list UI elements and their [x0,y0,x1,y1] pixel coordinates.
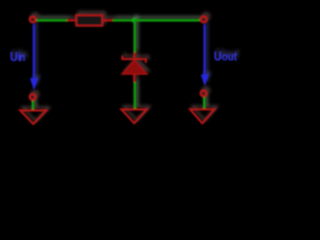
svg-text:Uin: Uin [10,49,25,64]
wire P3 to left ground [32,101,35,110]
resistor R1 left lead [67,19,76,21]
voltage arrow Uin (blue, pointing down) [33,24,35,79]
wire P4 to right ground [203,97,206,108]
svg-text:Uout: Uout [214,49,238,64]
port P3 (bottom left) [30,94,36,100]
wire D1 to middle ground [134,82,137,109]
zener diode D1 bottom lead [133,74,135,82]
zener diode D1 triangle (anode, pointing up) [122,60,147,74]
zener diode D1 top lead [133,52,135,59]
wire node A to P2 [134,19,199,22]
label Uin [10,49,25,64]
wire P1 to R1 [37,19,68,22]
node A junction dot [132,18,137,23]
label Uout [214,49,238,64]
port P1 (input terminal, top left) [30,17,36,23]
ground (left) [20,110,46,124]
port P2 (output terminal, top right) [201,16,207,22]
zener diode D1 cathode bar with hooks [122,56,145,63]
ground (right) [190,109,215,123]
wire node A down to D1 [134,20,137,52]
port P4 (bottom right) [201,91,207,97]
resistor R1 right lead [102,19,112,21]
ground (middle) [122,109,147,123]
resistor R1 body [76,15,102,26]
compression haze (offset desaturated glow) [12,12,239,121]
voltage arrow Uout (blue, pointing down) [204,25,206,76]
wire R1 to node A [113,19,135,22]
